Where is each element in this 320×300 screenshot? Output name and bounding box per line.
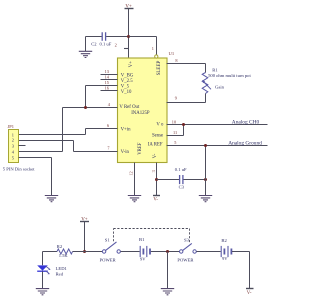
node V+ junction <box>127 35 130 38</box>
svg-text:Gain: Gain <box>215 84 225 89</box>
pin 13 V_BG <box>101 69 134 78</box>
svg-text:9V: 9V <box>140 256 146 261</box>
svg-text:12: 12 <box>128 171 133 175</box>
svg-text:C2: C2 <box>91 42 97 47</box>
wire V+ rail down to U1 pin 2 <box>128 9 130 59</box>
power V+ (top supply symbol) <box>125 4 134 9</box>
svg-text:V_BG: V_BG <box>121 73 134 78</box>
pin 8 wire <box>167 58 206 73</box>
wire JP1 pin 5 to ground <box>19 158 52 196</box>
ground (LED) <box>36 289 49 295</box>
pin 6 V+in <box>86 123 132 132</box>
svg-text:0.1 uF: 0.1 uF <box>100 42 112 47</box>
resistor R1 (gain pot) <box>202 68 251 94</box>
svg-text:C3: C3 <box>179 185 185 190</box>
power V- (battery supply symbol) <box>246 289 254 297</box>
svg-text:8: 8 <box>175 58 177 63</box>
svg-text:11: 11 <box>173 130 177 135</box>
wire JP1 pin 3 stub <box>19 145 26 147</box>
svg-text:JP1: JP1 <box>8 124 14 129</box>
svg-text:13: 13 <box>105 69 109 74</box>
svg-text:Analog CH0: Analog CH0 <box>232 119 260 125</box>
connector JP1 (5 PIN Din socket) <box>3 124 35 171</box>
svg-text:SLEEP: SLEEP <box>157 60 162 75</box>
wire S1 to B1 <box>121 251 140 253</box>
svg-text:1.5K: 1.5K <box>59 253 69 258</box>
svg-text:V Ref Out: V Ref Out <box>119 105 140 110</box>
pin 14 V_2.5 <box>101 75 134 84</box>
wire V+ stub to rail <box>84 222 86 252</box>
node sense junction <box>182 123 185 126</box>
svg-text:V-in: V-in <box>121 150 130 155</box>
wire JP1 pin 1 to V+in <box>19 129 86 135</box>
svg-text:V o: V o <box>156 122 164 127</box>
wire SLEEP branch to U1 pin 1 <box>129 37 157 55</box>
svg-text:3: 3 <box>151 170 156 172</box>
svg-text:V+in: V+in <box>121 127 132 132</box>
ground (under C2) <box>79 51 92 57</box>
svg-text:Red: Red <box>56 271 64 276</box>
node pin3/C3 junction <box>155 178 158 181</box>
wire analog-ground drop <box>205 146 207 196</box>
svg-text:500 ohm multi turn pot: 500 ohm multi turn pot <box>208 73 251 78</box>
ground (analog) <box>199 196 212 202</box>
svg-text:S3: S3 <box>184 237 190 242</box>
svg-text:R1: R1 <box>212 68 218 73</box>
power V+ (battery supply symbol) <box>80 217 89 222</box>
wire midpoint to ground <box>167 252 169 289</box>
svg-text:S1: S1 <box>105 237 111 242</box>
pin 10 V o / net Analog CH0 <box>156 119 267 127</box>
LED1 <box>37 265 67 276</box>
node C3 right junction <box>204 178 207 181</box>
wire gang dashed link <box>114 229 190 243</box>
wire C2 branch left of V+ node <box>86 37 129 52</box>
svg-text:V_10: V_10 <box>121 90 132 95</box>
svg-text:R2: R2 <box>57 244 63 249</box>
power V- (under U1 pin 3) <box>153 196 160 203</box>
svg-text:V_5: V_5 <box>121 84 130 89</box>
switch S1 <box>100 237 121 262</box>
node V+ rail junction <box>83 250 86 253</box>
svg-text:1: 1 <box>152 46 154 51</box>
capacitor C2 <box>91 32 111 46</box>
svg-text:IA REF: IA REF <box>148 143 163 148</box>
svg-text:2: 2 <box>115 43 117 48</box>
op-amp U1 INA125P body <box>118 51 175 162</box>
svg-text:0.1 uF: 0.1 uF <box>175 167 187 172</box>
svg-text:2: 2 <box>12 138 14 143</box>
svg-text:9: 9 <box>175 95 177 100</box>
svg-text:5: 5 <box>174 140 176 145</box>
svg-text:15: 15 <box>105 80 109 85</box>
battery B1 9V <box>139 237 150 262</box>
wire R2 to S1 <box>73 251 103 253</box>
wire JP1 pin 2 to V-in <box>19 141 74 152</box>
resistor R2 <box>57 244 73 258</box>
svg-text:U1: U1 <box>169 51 175 56</box>
ground (JP1 pin 5) <box>45 196 58 202</box>
svg-text:10: 10 <box>172 119 176 124</box>
svg-text:5 PIN Din socket: 5 PIN Din socket <box>3 167 35 172</box>
svg-text:9V: 9V <box>222 256 228 261</box>
svg-text:VREF: VREF <box>138 142 143 155</box>
wire LED anode / rail left <box>43 252 58 266</box>
battery B2 9V <box>221 238 231 261</box>
pin 11 Sense <box>152 125 184 139</box>
svg-text:Analog Ground: Analog Ground <box>228 140 262 146</box>
node analog ground junction <box>204 144 207 147</box>
svg-text:POWER: POWER <box>100 258 117 263</box>
svg-text:V-: V- <box>247 291 252 296</box>
svg-text:V+: V+ <box>129 61 134 67</box>
wire S3 to B2 <box>196 251 220 253</box>
svg-text:Sense: Sense <box>152 134 163 139</box>
wire VREF down to JP1 pin 4 <box>19 108 63 152</box>
pin 4 V Ref Out <box>63 102 140 110</box>
svg-text:INA125P: INA125P <box>131 111 150 116</box>
pin 15 V_5 <box>86 80 130 89</box>
pin 16 V_10 <box>101 86 133 95</box>
pin 9 wire <box>167 94 206 103</box>
svg-text:V-: V- <box>153 197 158 202</box>
svg-text:V_2.5: V_2.5 <box>121 79 133 84</box>
wire LED cathode <box>42 271 44 288</box>
pin 7 V-in <box>74 146 130 156</box>
node VREF junction <box>84 106 87 109</box>
svg-text:B2: B2 <box>221 238 227 243</box>
ground (U1 pin 12) <box>128 196 141 202</box>
pin 3 wire down to V- <box>151 163 157 196</box>
svg-text:V-: V- <box>153 153 158 158</box>
pin 5 IA REF / net Analog Ground <box>148 140 268 148</box>
wire V_5 to VRefOut <box>85 86 87 108</box>
switch S3 <box>177 237 196 262</box>
node battery midpoint junction <box>166 250 169 253</box>
svg-text:B1: B1 <box>139 237 145 242</box>
wire B2 to V- <box>232 252 250 289</box>
capacitor C3 <box>157 167 206 190</box>
wire B1 to S3 <box>151 251 180 253</box>
svg-text:POWER: POWER <box>177 258 194 263</box>
pin 12 wire down <box>128 163 134 196</box>
ground (battery midpoint) <box>161 289 174 295</box>
